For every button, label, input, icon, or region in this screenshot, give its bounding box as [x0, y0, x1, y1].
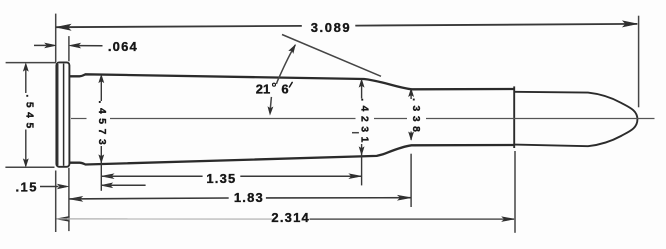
svg-text:21: 21	[256, 82, 270, 97]
svg-text:.545: .545	[23, 94, 34, 132]
svg-text:6: 6	[281, 82, 288, 97]
svg-text:1.83: 1.83	[234, 190, 264, 205]
svg-text:1.35: 1.35	[206, 171, 236, 186]
svg-text:.338: .338	[410, 98, 421, 136]
svg-text:2.314: 2.314	[271, 210, 310, 225]
svg-text:.064: .064	[108, 39, 138, 54]
svg-text:.4573: .4573	[96, 101, 107, 150]
svg-text:3.089: 3.089	[311, 20, 352, 35]
svg-text:.15: .15	[16, 180, 38, 195]
svg-text:.4231: .4231	[358, 98, 369, 147]
